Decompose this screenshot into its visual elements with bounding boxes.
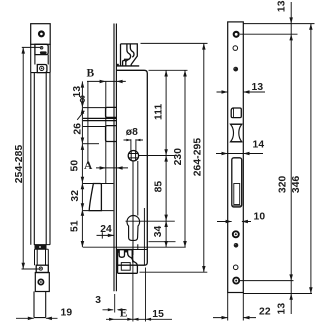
dim 22 bbox=[213, 293, 256, 321]
svg-text:13: 13 bbox=[72, 86, 83, 98]
dim 254-285 bbox=[22, 47, 41, 269]
euro cylinder profile bbox=[127, 216, 140, 241]
side walls between keeper and block2 bbox=[31, 44, 51, 72]
bottom hook bolt bbox=[116, 250, 147, 274]
top extension line bbox=[141, 42, 208, 44]
svg-text:E: E bbox=[120, 308, 128, 320]
o8 witness lines and arrows bbox=[124, 139, 144, 151]
keeper dark slot bbox=[40, 51, 47, 54]
vertical helper line x=87.9 bbox=[87, 81, 89, 164]
dim E / 15 bbox=[106, 242, 172, 322]
dim line 111/85/34 bbox=[164, 70, 168, 247]
hole 6 bbox=[233, 265, 238, 270]
8 leader bbox=[77, 111, 84, 120]
svg-text:19: 19 bbox=[61, 308, 73, 319]
dim B bbox=[87, 80, 126, 84]
top hook bolt bbox=[116, 44, 139, 66]
svg-text:13: 13 bbox=[252, 82, 264, 93]
cylinder extension bbox=[126, 220, 175, 222]
dim 19 bbox=[16, 317, 58, 321]
svg-text:26: 26 bbox=[73, 123, 84, 135]
svg-text:14: 14 bbox=[253, 140, 265, 151]
inner rod verticals bbox=[133, 161, 138, 255]
svg-text:13: 13 bbox=[276, 0, 287, 12]
faceplate front bbox=[228, 22, 244, 293]
vertical inner case line bbox=[143, 208, 145, 265]
tilt wedge bbox=[89, 184, 101, 211]
cylinder slot cutout bbox=[232, 158, 242, 207]
dim 24 bbox=[97, 232, 115, 238]
screw hole 5 bbox=[234, 243, 239, 248]
dim 3 at bottom bbox=[103, 294, 126, 313]
svg-text:10: 10 bbox=[254, 212, 266, 223]
hole 2 bbox=[233, 46, 238, 51]
svg-text:B: B bbox=[87, 68, 95, 80]
svg-text:254-285: 254-285 bbox=[14, 145, 25, 184]
hole 1 bold bbox=[234, 32, 239, 37]
dim line 230 bbox=[183, 70, 187, 247]
latch cutout bbox=[231, 108, 241, 118]
hole 7 bold bbox=[233, 278, 239, 284]
bottom long extension bbox=[140, 271, 208, 273]
roller knob 1 bbox=[106, 107, 117, 117]
dim A bbox=[96, 166, 128, 170]
svg-text:3: 3 bbox=[95, 295, 101, 306]
top plate bbox=[31, 24, 51, 45]
dim line 264-295 bbox=[202, 43, 206, 272]
block2 with hole bbox=[37, 65, 47, 73]
left extension lines bbox=[83, 108, 186, 248]
bottom rod bbox=[34, 292, 46, 318]
svg-text:51: 51 bbox=[70, 220, 81, 232]
spindle extension bbox=[139, 155, 175, 157]
top plate hole (bold ring) bbox=[39, 32, 44, 37]
svg-text:15: 15 bbox=[152, 309, 164, 320]
roller knob 2 bbox=[106, 126, 117, 142]
case top extension bbox=[149, 69, 188, 71]
dim 13 width bbox=[217, 90, 266, 94]
long channel bbox=[31, 73, 50, 245]
short segment below dark block bbox=[35, 249, 49, 265]
screw hole 3 bbox=[233, 67, 238, 72]
dark end block bbox=[34, 245, 50, 250]
spindle hole o8 with hatch bbox=[128, 151, 138, 161]
bottom block with bold hole bbox=[35, 273, 49, 292]
dim 14 bbox=[216, 152, 263, 155]
vertical helper line x=105.8 bbox=[105, 81, 107, 183]
svg-text:85: 85 bbox=[154, 181, 165, 193]
hole 4 bold bbox=[233, 231, 239, 237]
svg-text:230: 230 bbox=[173, 148, 184, 166]
svg-text:13: 13 bbox=[277, 303, 288, 315]
svg-text:111: 111 bbox=[154, 103, 165, 120]
keeper block bbox=[35, 44, 48, 54]
svg-text:22: 22 bbox=[259, 307, 271, 318]
svg-text:346: 346 bbox=[291, 175, 302, 193]
svg-text:24: 24 bbox=[100, 224, 112, 235]
hourglass cutout bbox=[231, 124, 242, 142]
svg-text:ø8: ø8 bbox=[126, 127, 138, 138]
dim 10 bbox=[217, 220, 251, 223]
extension y=241.7 bbox=[149, 241, 176, 243]
svg-text:320: 320 bbox=[278, 175, 289, 193]
svg-text:32: 32 bbox=[70, 190, 81, 202]
svg-text:A: A bbox=[84, 160, 93, 172]
svg-text:50: 50 bbox=[70, 160, 81, 172]
small block with hole bbox=[36, 265, 48, 272]
top ext lines bbox=[240, 24, 315, 294]
faceplate (edge view, double line) bbox=[114, 24, 116, 292]
svg-text:264-295: 264-295 bbox=[192, 138, 203, 177]
left dim chain vertical bbox=[81, 81, 85, 247]
lock case outline bbox=[116, 70, 147, 265]
dim 346 bbox=[309, 24, 313, 294]
svg-text:34: 34 bbox=[153, 225, 164, 237]
dim 13 top / 320 / 13 bottom shared line bbox=[289, 2, 293, 314]
